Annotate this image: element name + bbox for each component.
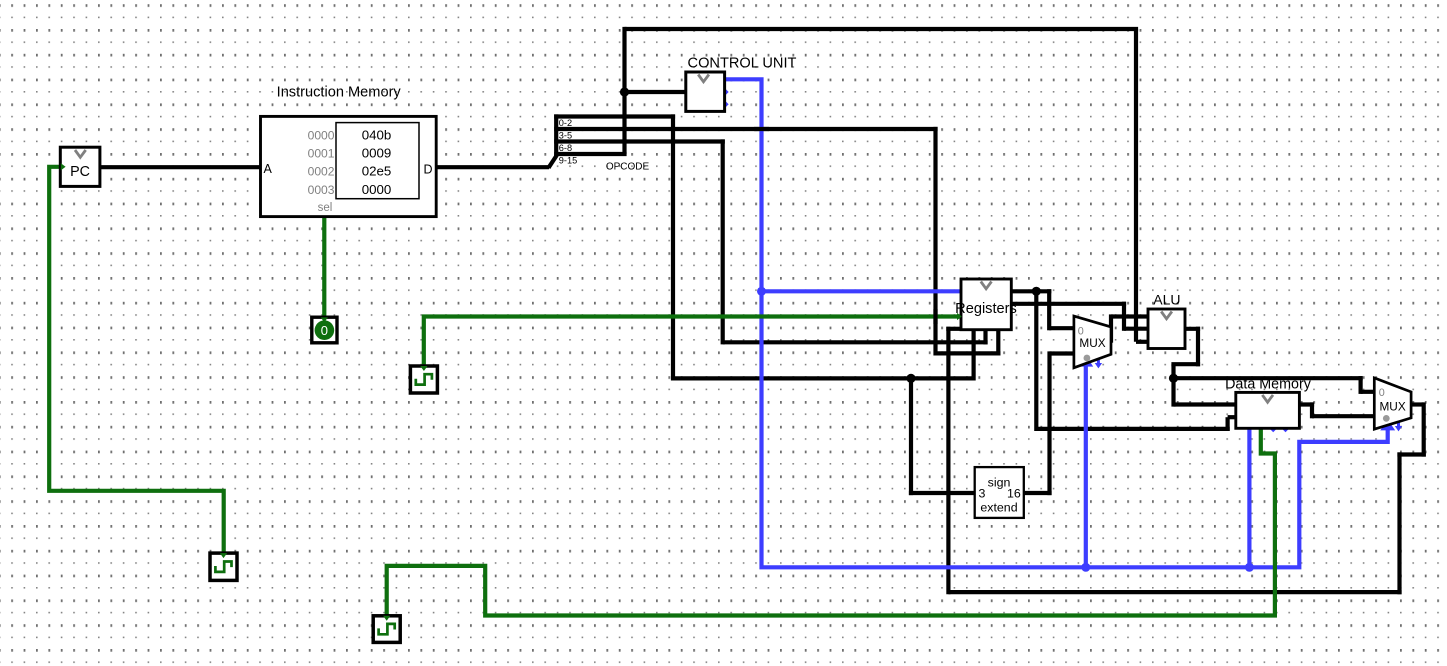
svg-text:0003: 0003 xyxy=(308,183,335,197)
wire patch 3-5 over blue xyxy=(754,127,769,131)
wire y=428.9 to Data Memory xyxy=(1036,427,1229,431)
wire Instruction Memory D to splitter xyxy=(434,165,549,169)
junction opcode/control xyxy=(620,87,629,96)
wire splitter leg 0-2 xyxy=(554,114,675,118)
junction blue registers xyxy=(757,287,766,296)
wire to CONTROL UNIT input xyxy=(625,90,688,94)
wire top bus y=29 xyxy=(625,27,1139,31)
pin arrow MUX2 select xyxy=(1384,423,1391,428)
subcircuit sign extend xyxy=(975,467,1024,518)
svg-text:02e5: 02e5 xyxy=(362,164,392,179)
wire read1 drop x=1124 xyxy=(1122,302,1126,331)
wire ALU-op vertical x=1136 xyxy=(1134,29,1138,342)
svg-text:sel: sel xyxy=(318,202,333,214)
wire ALU output drop x=1198 xyxy=(1196,327,1200,367)
svg-text:0002: 0002 xyxy=(308,165,335,179)
pin stub Registers south2 xyxy=(984,329,988,333)
subcircuit ALU xyxy=(1148,309,1185,349)
memory addresses xyxy=(308,128,335,197)
svg-text:0001: 0001 xyxy=(308,147,335,161)
pin arrow into PC xyxy=(61,163,66,170)
wire 3-5 up to Registers south pin3 xyxy=(996,329,1000,356)
wire into Data Memory west pin2 xyxy=(1228,415,1237,419)
svg-text:PC: PC xyxy=(70,164,90,180)
svg-text:0000: 0000 xyxy=(362,182,392,197)
wire write-back jog y=454.5 xyxy=(1397,452,1425,456)
clock chevron CONTROL UNIT xyxy=(698,75,709,82)
clock chevron ALU xyxy=(1161,312,1172,319)
wire CONTROL UNIT out blue net xyxy=(724,79,1388,567)
clock CLK1 xyxy=(210,553,237,580)
svg-text:Instruction Memory: Instruction Memory xyxy=(277,85,402,101)
wire sign extend rise x=1049.5 xyxy=(1047,351,1051,495)
svg-text:0: 0 xyxy=(1379,387,1385,399)
wire ALU output drop x=1173.5 xyxy=(1171,364,1175,378)
wire read1 into ALU pin2 xyxy=(1124,327,1151,331)
wire MUX1 output rise x=1111 xyxy=(1109,314,1113,342)
wire read2 into MUX1 in1 xyxy=(1049,326,1075,330)
clock CLK3 xyxy=(410,366,437,393)
svg-text:0: 0 xyxy=(321,323,328,338)
pin diamond CONTROL UNIT out2 xyxy=(719,87,729,97)
svg-text:A: A xyxy=(264,162,273,176)
wire patch 3-5 vertical over green xyxy=(933,309,937,324)
wire 6-8 vertical x=722.7 xyxy=(721,139,725,344)
svg-text:ALU: ALU xyxy=(1153,292,1180,308)
wire MUX2 output drop x=1423.7 xyxy=(1422,402,1426,456)
wire write-back rise x=1399.5 xyxy=(1397,452,1401,594)
wire rise x=1227.6 xyxy=(1225,417,1229,431)
wire read2 branch down x=1036.3 xyxy=(1034,291,1038,431)
wire Data Memory east out xyxy=(1298,402,1314,406)
memory U1 Instruction Memory xyxy=(261,116,437,216)
pin arrow into Registers green xyxy=(957,313,962,320)
junction read2/data-memory xyxy=(1032,287,1041,296)
pin arrow MUX1 select xyxy=(1082,359,1089,364)
svg-text:D: D xyxy=(424,162,433,176)
svg-text:0000: 0000 xyxy=(308,128,335,142)
subcircuit CONTROL UNIT xyxy=(686,72,725,111)
wire into sign extend west xyxy=(909,491,976,495)
wire blue to Registers west pin1 xyxy=(759,289,962,293)
svg-text:3: 3 xyxy=(979,487,986,501)
pin diamond Data Memory south3 xyxy=(1269,424,1277,432)
pin arrow into pin P1 xyxy=(321,317,328,322)
svg-text:0009: 0009 xyxy=(362,146,392,161)
svg-text:MUX: MUX xyxy=(1079,336,1105,350)
mux MUX1 xyxy=(1074,316,1111,368)
wire Registers west write-data stub xyxy=(946,327,962,331)
wire result bus y=378.2 xyxy=(1174,376,1363,380)
wire ALU output xyxy=(1184,327,1200,331)
splitter SP1 fan xyxy=(549,114,557,167)
memory U2 Data Memory xyxy=(1236,392,1300,428)
wire 0-2 up to Registers south pin1 xyxy=(971,329,975,381)
svg-text:040b: 040b xyxy=(362,127,392,142)
svg-text:3-5: 3-5 xyxy=(559,131,572,141)
wire Registers east read2 xyxy=(1010,289,1051,293)
pin stub Registers south3 xyxy=(997,329,1001,333)
svg-text:OPCODE: OPCODE xyxy=(606,161,650,172)
wire read2 drop x=1049.2 xyxy=(1047,289,1051,330)
wire clock3 to Registers west xyxy=(424,317,962,369)
subcircuit Registers xyxy=(955,279,1017,330)
pin stub MUX2 unconnected xyxy=(1395,419,1402,431)
svg-text:extend: extend xyxy=(980,501,1017,515)
wire y=377.5 horizontal xyxy=(673,376,974,380)
wire into Data Memory west pin1 xyxy=(1174,402,1238,406)
wire clock1 to PC west xyxy=(49,167,224,555)
wire 0-2 vertical x=673 xyxy=(671,114,675,380)
junction ALU-result node xyxy=(1169,374,1178,383)
wire write-back bottom y=592.1 xyxy=(948,590,1401,594)
svg-text:9-15: 9-15 xyxy=(559,156,577,166)
clock CLK2 xyxy=(373,616,400,643)
svg-text:Registers: Registers xyxy=(955,301,1017,317)
svg-text:CONTROL UNIT: CONTROL UNIT xyxy=(688,56,797,72)
wire DM out into MUX2 in2 xyxy=(1312,414,1375,418)
wire DM out drop x=1312 xyxy=(1310,402,1314,418)
wire sign extend east xyxy=(1023,491,1052,495)
wire result to MUX2 drop x=1360.6 xyxy=(1358,376,1362,394)
wire MUX2 output y=404.5 xyxy=(1410,402,1424,406)
pin stub MUX1 unconnected xyxy=(1095,357,1102,368)
wire result into MUX2 in1 xyxy=(1361,390,1376,394)
wire junction down to sign extend xyxy=(909,378,913,495)
wire ALU-op to ALU pin3 xyxy=(1136,340,1151,344)
wire blue Data Memory south pin1 xyxy=(1247,428,1251,570)
wire MUX1 output into ALU pin1 xyxy=(1111,314,1151,318)
clock chevron Data Memory xyxy=(1262,395,1273,402)
wire 3-5 horizontal y=353.4 xyxy=(936,351,1001,355)
junction blue dm xyxy=(1245,563,1254,572)
wire ALU output jog y=364.2 xyxy=(1171,362,1200,366)
wire write-back vertical x=948.4 xyxy=(946,327,950,595)
mux MUX2 xyxy=(1374,378,1411,429)
svg-text:0-2: 0-2 xyxy=(559,118,572,128)
wire splitter leg 6-8 xyxy=(554,139,725,143)
memory data values xyxy=(362,127,392,197)
pin diamond Data Memory south4 xyxy=(1282,424,1290,432)
svg-text:16: 16 xyxy=(1007,487,1021,501)
wire PC to Instruction Memory A xyxy=(98,165,262,169)
svg-text:MUX: MUX xyxy=(1379,399,1405,413)
wire 3-5 vertical x=935.5 xyxy=(933,127,937,356)
pin diamond CONTROL UNIT out3 xyxy=(719,99,729,109)
wire 6-8 up to Registers south pin2 xyxy=(983,329,987,344)
splitter labels xyxy=(559,118,577,166)
wire blue MUX1 select xyxy=(1084,362,1088,569)
junction blue mux1-select xyxy=(1081,563,1090,572)
clock chevron PC xyxy=(75,150,86,157)
clock chevron Registers xyxy=(981,282,992,289)
wire opcode vertical x=624.5 xyxy=(622,27,626,154)
wire splitter leg 9-15 xyxy=(554,152,626,156)
wire splitter leg 3-5 xyxy=(554,127,937,131)
junction result/sign-extend xyxy=(906,374,915,383)
svg-text:Data Memory: Data Memory xyxy=(1225,377,1312,393)
svg-text:6-8: 6-8 xyxy=(559,143,572,153)
wire sign extend into MUX1 in2 xyxy=(1050,351,1076,355)
input pin P1 value 0 xyxy=(312,317,337,343)
pin stub Registers south1 xyxy=(972,329,976,333)
wire result down to Data Memory pin1 xyxy=(1171,378,1175,406)
wire 6-8 horizontal y=342.3 xyxy=(723,340,988,344)
register PC xyxy=(60,147,100,186)
wire Instruction Memory sel to pin xyxy=(322,216,326,319)
wire Registers east read1 xyxy=(1010,302,1126,306)
wire clock2 to Data Memory xyxy=(387,428,1275,618)
